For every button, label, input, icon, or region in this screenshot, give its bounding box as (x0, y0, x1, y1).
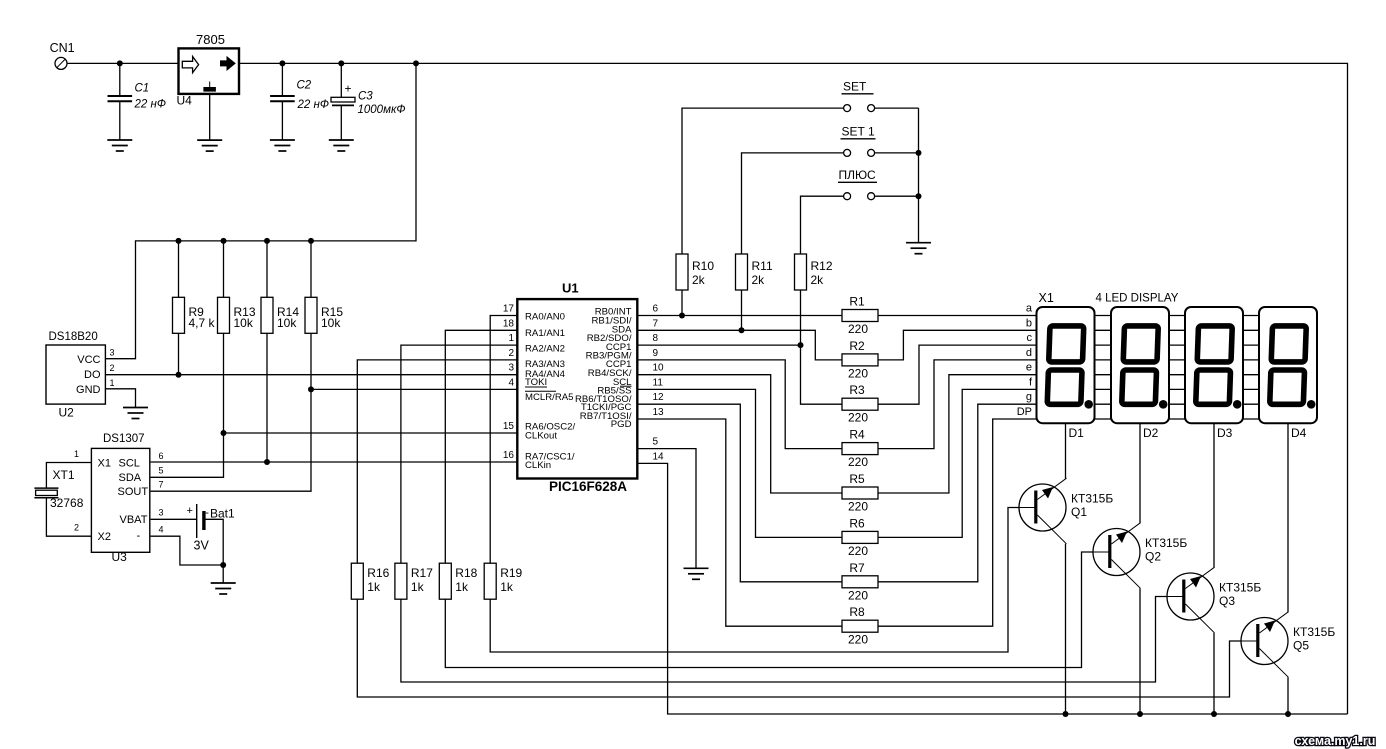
svg-text:RA2/AN2: RA2/AN2 (525, 343, 565, 354)
svg-text:14: 14 (653, 451, 665, 462)
svg-text:6: 6 (159, 451, 164, 461)
svg-text:220: 220 (848, 366, 868, 380)
svg-text:XT1: XT1 (53, 468, 75, 482)
svg-text:MCLR/RA5: MCLR/RA5 (525, 392, 574, 403)
svg-text:d: d (1026, 347, 1032, 359)
svg-text:3V: 3V (194, 539, 210, 553)
svg-text:R19: R19 (500, 566, 522, 580)
svg-text:7: 7 (653, 318, 659, 329)
svg-text:9: 9 (653, 348, 659, 359)
svg-text:D3: D3 (1217, 426, 1233, 440)
svg-text:3: 3 (110, 348, 115, 358)
svg-text:1: 1 (74, 449, 79, 459)
svg-text:SDA: SDA (119, 472, 142, 484)
svg-text:R1: R1 (849, 295, 865, 309)
svg-text:U3: U3 (112, 550, 128, 564)
svg-text:10k: 10k (277, 316, 297, 330)
svg-text:VCC: VCC (77, 354, 100, 366)
svg-text:12: 12 (653, 392, 665, 403)
svg-text:32768: 32768 (50, 496, 84, 510)
svg-text:2k: 2k (811, 273, 825, 287)
svg-text:R7: R7 (849, 561, 865, 575)
svg-text:Q1: Q1 (1071, 505, 1087, 519)
svg-text:+: + (187, 505, 193, 517)
svg-text:18: 18 (503, 318, 515, 329)
svg-text:4: 4 (159, 525, 164, 535)
svg-text:g: g (1026, 391, 1032, 403)
svg-text:6: 6 (653, 304, 659, 315)
svg-text:R4: R4 (849, 428, 865, 442)
svg-text:PGD: PGD (611, 419, 632, 430)
svg-text:ПЛЮС: ПЛЮС (839, 168, 876, 182)
svg-text:VBAT: VBAT (120, 514, 148, 526)
svg-text:C3: C3 (358, 91, 373, 103)
svg-text:11: 11 (653, 377, 664, 388)
svg-text:220: 220 (848, 500, 868, 514)
svg-text:220: 220 (848, 633, 868, 647)
svg-text:220: 220 (848, 322, 868, 336)
svg-text:1k: 1k (500, 580, 514, 594)
svg-text:SET 1: SET 1 (842, 125, 875, 139)
svg-text:1: 1 (110, 378, 115, 388)
svg-text:10k: 10k (234, 316, 254, 330)
svg-text:3: 3 (508, 363, 514, 374)
svg-text:13: 13 (653, 407, 665, 418)
svg-text:R16: R16 (367, 566, 389, 580)
svg-text:22 нФ: 22 нФ (134, 99, 166, 111)
svg-text:a: a (1026, 303, 1033, 315)
svg-text:+: + (345, 82, 352, 96)
svg-text:U4: U4 (177, 94, 193, 108)
svg-text:5: 5 (159, 466, 164, 476)
svg-text:4,7 k: 4,7 k (189, 316, 216, 330)
svg-text:RA0/AN0: RA0/AN0 (525, 312, 565, 323)
svg-text:КТ315Б: КТ315Б (1145, 536, 1187, 550)
svg-text:R8: R8 (849, 605, 865, 619)
svg-text:X1: X1 (98, 457, 111, 469)
svg-text:e: e (1026, 362, 1032, 374)
svg-text:7805: 7805 (196, 32, 225, 47)
svg-text:КТ315Б: КТ315Б (1219, 581, 1261, 595)
svg-text:3: 3 (159, 508, 164, 518)
svg-text:220: 220 (848, 411, 868, 425)
svg-text:2k: 2k (752, 273, 766, 287)
svg-text:1k: 1k (411, 580, 425, 594)
svg-text:КТ315Б: КТ315Б (1071, 492, 1113, 506)
svg-text:R17: R17 (411, 566, 433, 580)
svg-text:2: 2 (110, 363, 115, 373)
svg-text:Q3: Q3 (1219, 594, 1235, 608)
svg-text:1k: 1k (455, 580, 469, 594)
svg-text:b: b (1026, 317, 1032, 329)
svg-text:схема.my1.ru: схема.my1.ru (1295, 734, 1376, 748)
svg-text:10k: 10k (321, 316, 341, 330)
svg-text:R10: R10 (692, 259, 714, 273)
svg-text:2k: 2k (692, 273, 706, 287)
svg-text:2: 2 (508, 348, 514, 359)
svg-text:220: 220 (848, 455, 868, 469)
svg-text:R2: R2 (849, 339, 865, 353)
svg-text:1k: 1k (367, 580, 381, 594)
svg-text:22 нФ: 22 нФ (297, 99, 329, 111)
svg-text:Q5: Q5 (1293, 639, 1309, 653)
svg-text:R6: R6 (849, 516, 865, 530)
svg-text:КТ315Б: КТ315Б (1293, 625, 1335, 639)
svg-text:7: 7 (159, 480, 164, 490)
svg-text:R3: R3 (849, 383, 865, 397)
svg-text:R11: R11 (752, 259, 773, 273)
svg-text:SOUT: SOUT (118, 486, 149, 498)
svg-text:DS1307: DS1307 (103, 433, 145, 445)
svg-text:DO: DO (84, 369, 101, 381)
svg-text:CLKin: CLKin (525, 460, 551, 471)
svg-text:c: c (1027, 332, 1033, 344)
svg-text:-: - (205, 507, 209, 519)
svg-text:GND: GND (76, 384, 101, 396)
svg-text:X2: X2 (98, 531, 111, 543)
svg-text:17: 17 (503, 304, 515, 315)
svg-text:2: 2 (74, 523, 79, 533)
svg-text:1: 1 (508, 333, 514, 344)
svg-text:R18: R18 (455, 566, 477, 580)
svg-text:10: 10 (653, 363, 665, 374)
svg-text:220: 220 (848, 544, 868, 558)
svg-text:DS18B20: DS18B20 (49, 331, 98, 343)
svg-text:5: 5 (653, 437, 659, 448)
svg-text:-: - (137, 530, 141, 542)
svg-text:220: 220 (848, 588, 868, 602)
svg-text:D1: D1 (1069, 426, 1085, 440)
svg-text:16: 16 (503, 450, 515, 461)
svg-text:D2: D2 (1143, 426, 1159, 440)
svg-text:SET: SET (843, 80, 867, 94)
svg-text:X1: X1 (1039, 291, 1054, 305)
svg-text:Bat1: Bat1 (210, 507, 235, 521)
svg-text:Q2: Q2 (1145, 550, 1161, 564)
svg-text:C2: C2 (297, 80, 312, 92)
svg-text:SCL: SCL (119, 457, 140, 469)
svg-text:R5: R5 (849, 472, 865, 486)
svg-text:U2: U2 (59, 406, 75, 420)
svg-text:U1: U1 (562, 281, 579, 296)
svg-text:1000мкФ: 1000мкФ (358, 104, 406, 116)
svg-text:DP: DP (1017, 406, 1032, 418)
svg-text:4: 4 (508, 377, 514, 388)
svg-text:15: 15 (503, 421, 515, 432)
svg-text:R12: R12 (811, 259, 833, 273)
svg-text:8: 8 (653, 333, 659, 344)
svg-text:4 LED DISPLAY: 4 LED DISPLAY (1096, 293, 1179, 305)
svg-text:CLKout: CLKout (525, 430, 557, 441)
svg-text:PIC16F628A: PIC16F628A (549, 479, 627, 494)
svg-text:CN1: CN1 (50, 41, 75, 55)
svg-text:TOKI: TOKI (525, 377, 547, 388)
svg-text:RA1/AN1: RA1/AN1 (525, 328, 565, 339)
svg-text:C1: C1 (135, 83, 150, 95)
svg-text:D4: D4 (1291, 426, 1307, 440)
